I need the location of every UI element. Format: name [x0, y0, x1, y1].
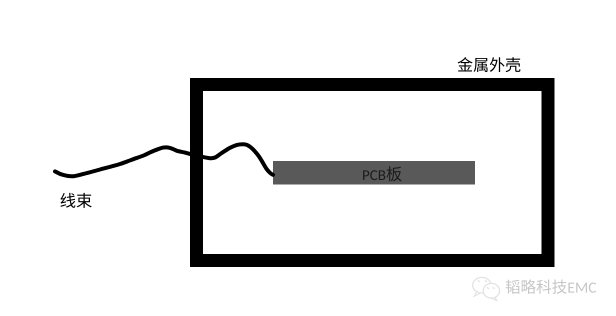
- logo icon: two chat bubbles: [473, 277, 500, 300]
- label 线束 (wire harness): [60, 193, 91, 208]
- label 金属外壳 (metal enclosure): [458, 57, 521, 72]
- logo text 韬略科技EMC: [506, 279, 597, 293]
- metal enclosure (金属外壳) rectangle: [197, 85, 549, 261]
- label PCB板 (PCB board): [363, 166, 402, 181]
- PCB board (gray bar): [273, 161, 475, 185]
- wire harness (线束): [55, 144, 273, 176]
